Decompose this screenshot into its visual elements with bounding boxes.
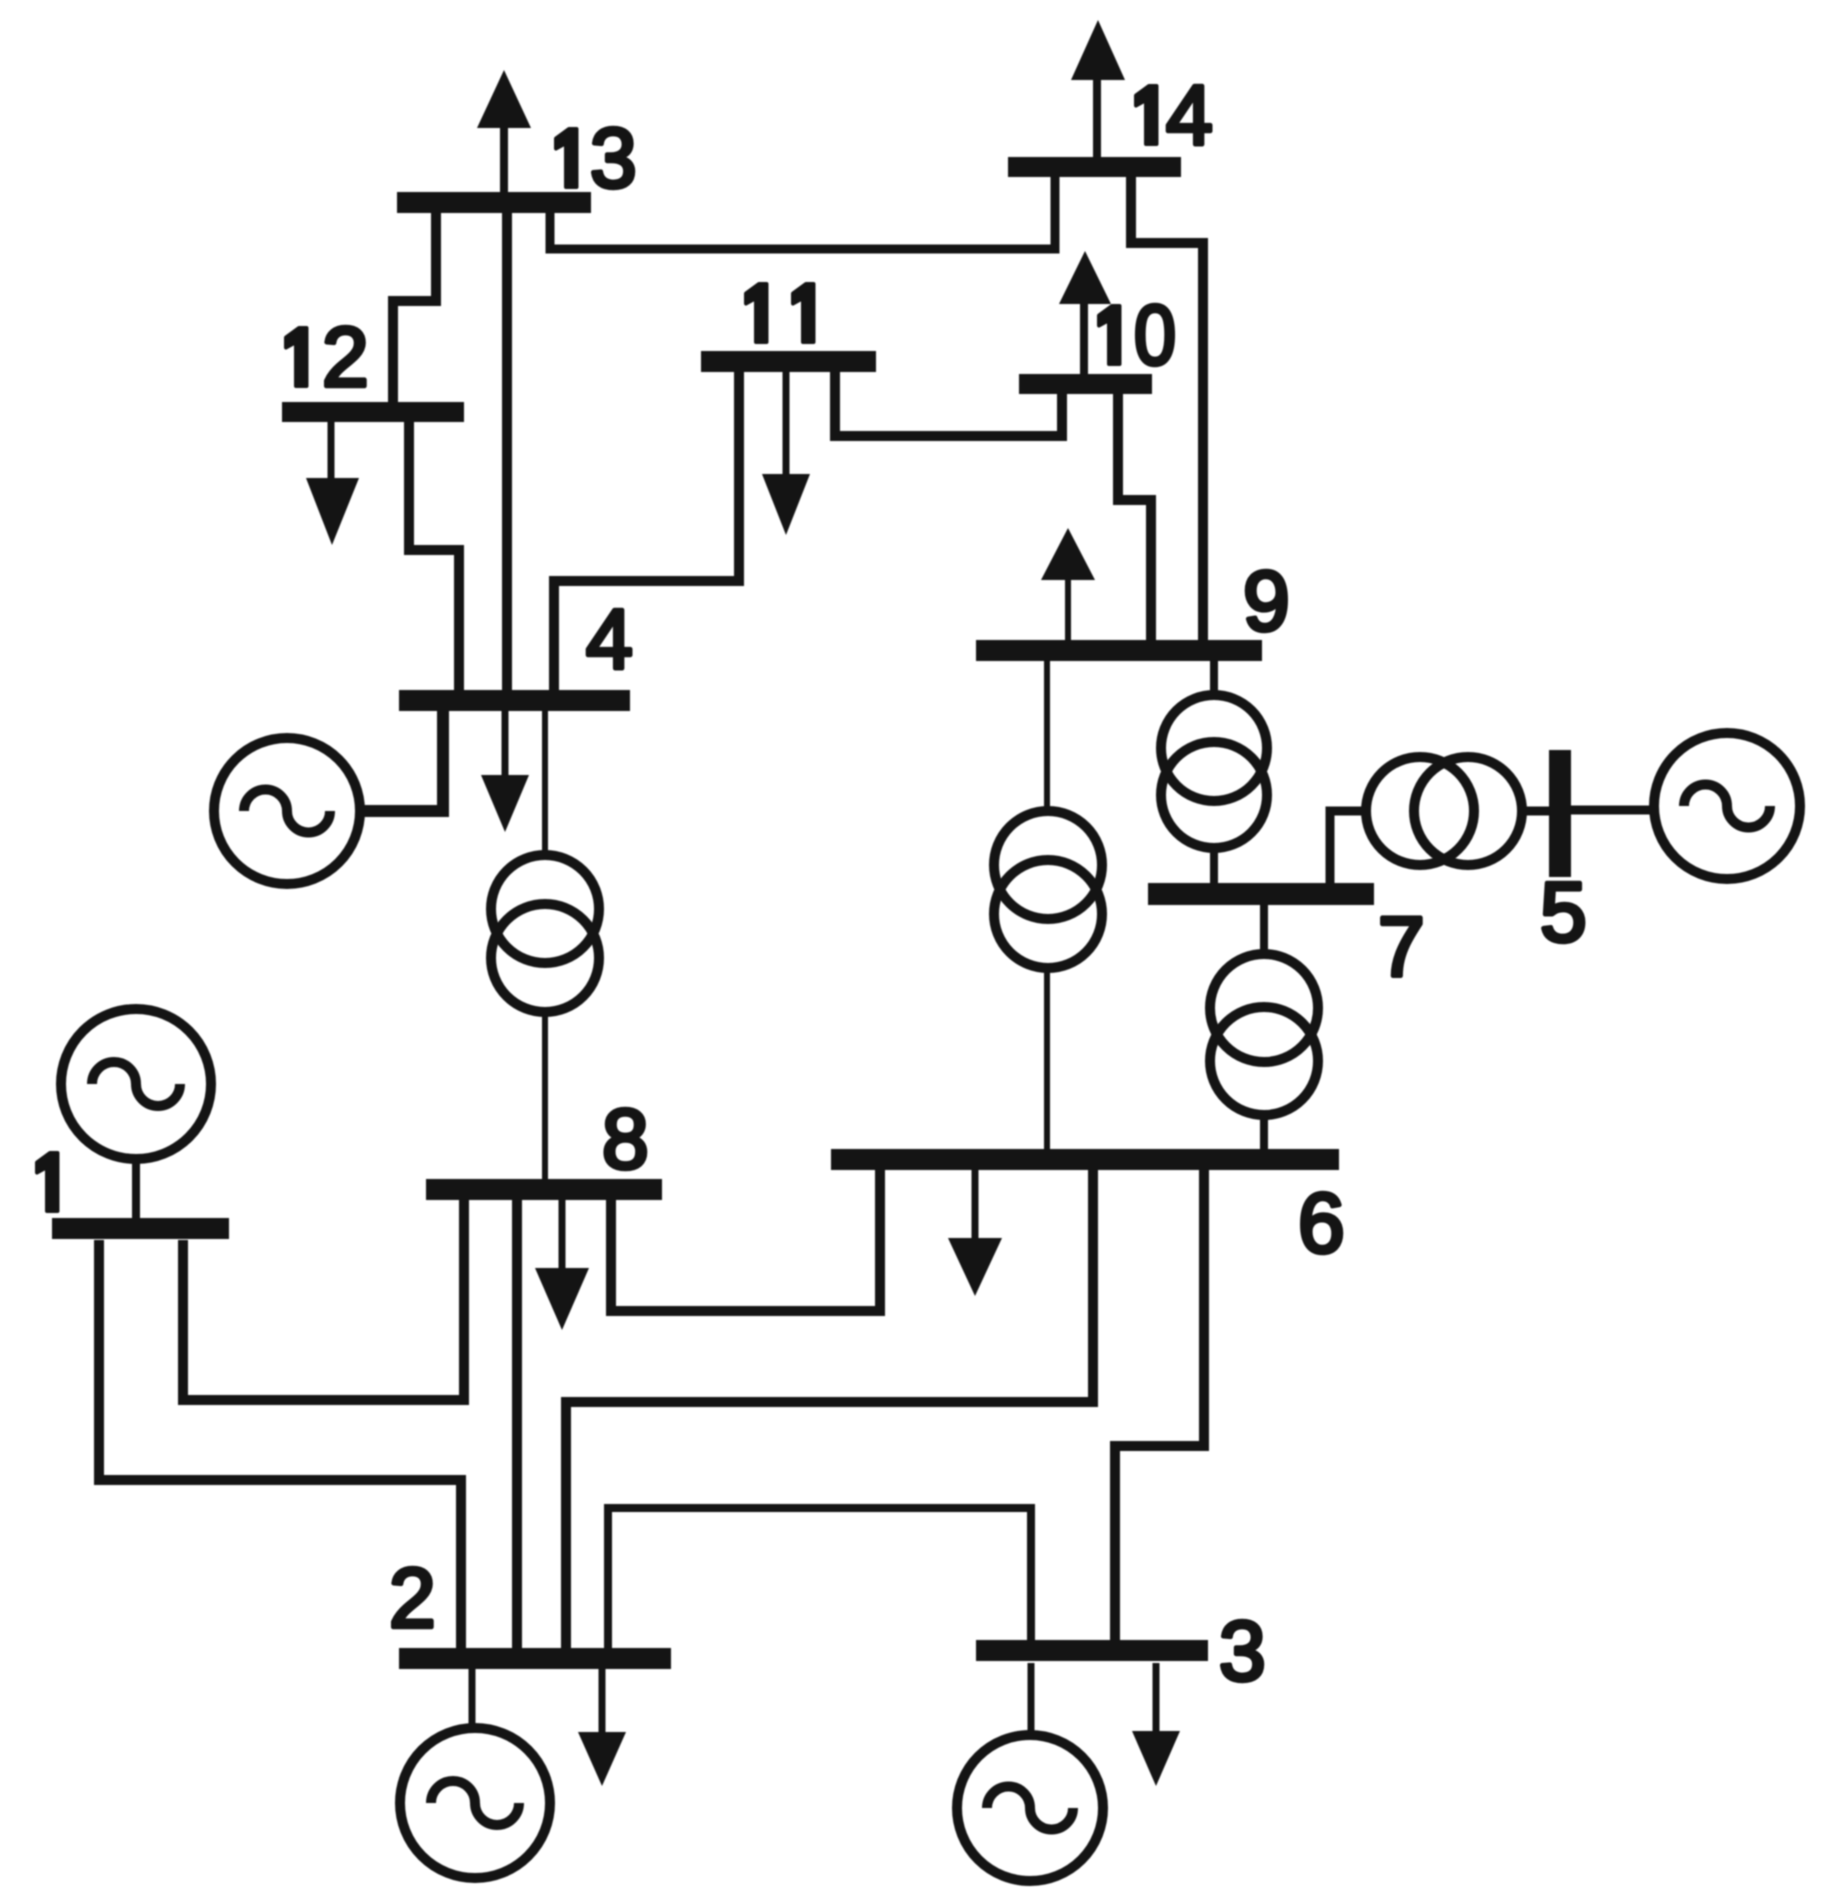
bus 7: [1148, 883, 1374, 905]
wire line 13-12: [393, 213, 436, 402]
svg-text:3: 3: [590, 111, 637, 205]
svg-text:6: 6: [1298, 1176, 1345, 1270]
load arrow bus 8: [535, 1200, 589, 1330]
wire generator-1 stub: [132, 1160, 140, 1218]
svg-text:7: 7: [1378, 900, 1425, 994]
bus 11: [701, 351, 876, 372]
wire line 14-9: [1131, 177, 1203, 640]
wire generator-2 stub: [469, 1669, 476, 1728]
wire generator-3 stub: [1028, 1663, 1035, 1737]
generation arrow bus 13: [477, 70, 531, 192]
wire line 12-4: [409, 422, 459, 690]
svg-text:4: 4: [1166, 68, 1213, 162]
svg-text:0: 0: [1134, 288, 1176, 382]
node label 10: [1099, 288, 1176, 382]
wire line 2-3: [608, 1508, 1031, 1648]
load arrow bus 4: [481, 711, 529, 832]
wire line 6-3: [1115, 1170, 1204, 1643]
transformer 5-7: [1366, 757, 1474, 865]
generator G1: [61, 1009, 211, 1159]
load arrow bus 11: [762, 372, 810, 535]
svg-text:3: 3: [1219, 1604, 1266, 1698]
wire transformer 5-7 to bus 5: [1520, 807, 1549, 816]
node label 12: [286, 310, 369, 404]
load arrow bus 12: [306, 422, 359, 545]
generation arrow bus 10: [1059, 251, 1111, 374]
generator G5: [1654, 733, 1800, 879]
load arrow bus 6: [948, 1170, 1002, 1296]
transformer 9-7: [1161, 695, 1267, 801]
node label 14: [1136, 68, 1213, 162]
svg-text:2: 2: [322, 310, 369, 404]
bus 8: [426, 1179, 662, 1200]
wire line 1-2: [99, 1240, 461, 1648]
wire line 1-8: [183, 1200, 464, 1400]
generator G2: [400, 1728, 550, 1878]
bus 9: [976, 640, 1262, 661]
svg-text:5: 5: [1540, 865, 1587, 959]
wire line 13-4: [502, 213, 512, 690]
generation arrow bus 9: [1041, 528, 1095, 640]
transformer 7-6: [1210, 954, 1318, 1062]
bus 5: [1549, 750, 1571, 877]
bus 2: [399, 1648, 671, 1669]
wire line 11-10: [835, 372, 1062, 436]
transformer 4-8: [491, 855, 599, 963]
bus 3: [976, 1640, 1208, 1661]
generation arrow bus 14: [1071, 20, 1125, 157]
bus 4: [399, 690, 630, 711]
wire line 8-2: [512, 1200, 522, 1648]
wire line 2-6: [566, 1170, 1093, 1648]
bus 12: [282, 402, 464, 422]
wire line 10-9: [1118, 394, 1151, 640]
svg-text:9: 9: [1243, 554, 1290, 648]
svg-text:2: 2: [389, 1551, 436, 1645]
bus 10: [1019, 374, 1152, 394]
wire generator-4 lead: [360, 711, 443, 811]
wire transformer 4-8 stubs: [542, 711, 548, 1179]
svg-text:8: 8: [602, 1092, 649, 1186]
wire bus7 to transformer 5-7: [1330, 811, 1368, 883]
wire generator-5 lead: [1571, 806, 1656, 815]
generator G3: [957, 1735, 1103, 1881]
bus 14: [1008, 157, 1181, 177]
wire line 8-6: [611, 1170, 880, 1311]
bus 6: [831, 1149, 1339, 1170]
wire transformer 9-6 stubs: [1044, 661, 1050, 1149]
bus 13: [397, 192, 591, 213]
wire line 11-4: [554, 372, 739, 690]
bus 1: [52, 1218, 229, 1239]
wire line 13-14: [550, 177, 1055, 249]
wire transformer 7-6 stubs: [1260, 905, 1268, 1149]
node label 1: [37, 1153, 58, 1211]
load arrow bus 3: [1132, 1663, 1180, 1786]
generator G4: [214, 738, 360, 884]
transformer 9-6: [994, 811, 1102, 919]
node label 13: [556, 111, 637, 205]
load arrow bus 2: [578, 1669, 626, 1786]
wire transformer 9-7 stubs: [1210, 661, 1218, 883]
svg-text:4: 4: [586, 592, 633, 686]
node label 11: [746, 284, 814, 342]
